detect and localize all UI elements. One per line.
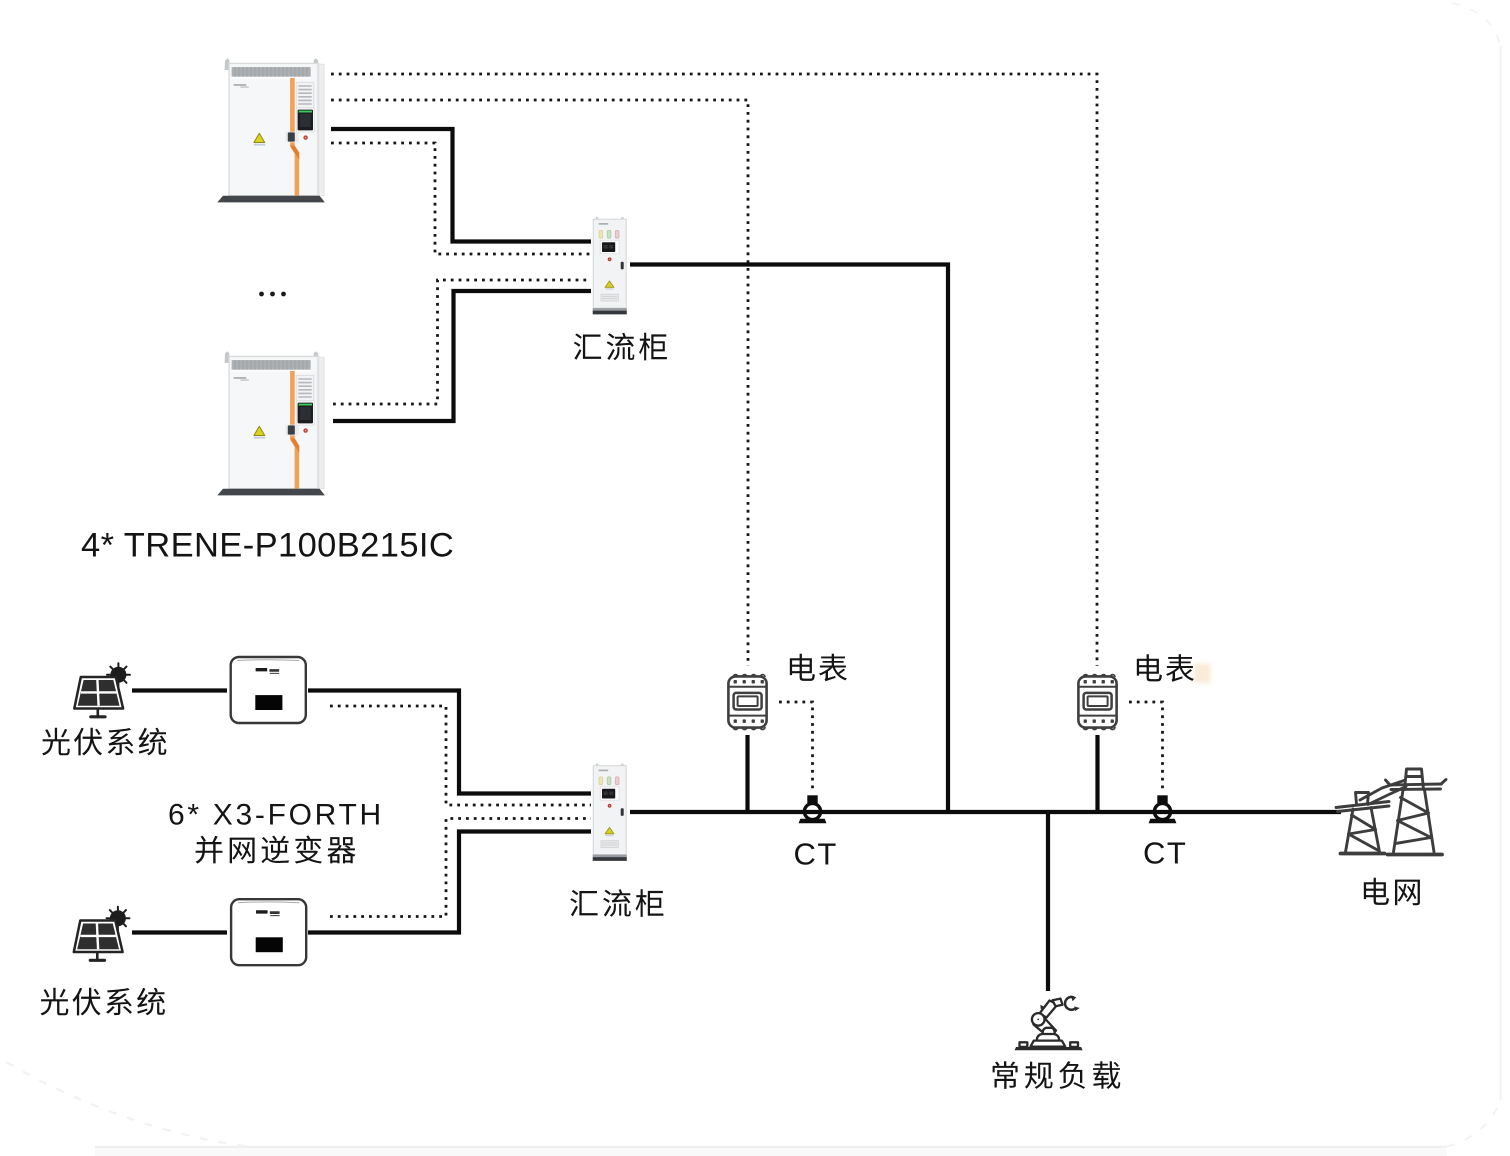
label: 电表 (meter 2) [1137, 654, 1194, 682]
faint card right edge [1500, 46, 1502, 1100]
label: 电表 (meter 1) [790, 654, 847, 682]
wire: load drop from bus (solid) [1046, 814, 1050, 991]
wire: PV1 to inverter1 (solid) [132, 688, 227, 692]
wire: battery1 comm to combiner1 (dotted) [331, 143, 591, 254]
label: 电网 (grid) [1364, 878, 1420, 906]
label: 光伏系统 (PV system 2) [41, 988, 165, 1016]
CT 2 sensor on bus [1149, 795, 1177, 823]
label: 常规负载 (regular load) [993, 1061, 1121, 1089]
combiner cabinet 2 (PV side) [593, 764, 627, 861]
wire: inverter1 comm to combiner2 (dotted) [330, 706, 591, 805]
right tall tower [1405, 769, 1424, 790]
svg-text:4* TRENE-P100B215IC: 4* TRENE-P100B215IC [81, 527, 454, 565]
CT 1 sensor on bus [799, 795, 827, 823]
wire: inverter2 comm to combiner2 (dotted) [330, 819, 591, 917]
svg-text:CT: CT [794, 837, 838, 872]
highlight smudge near meter2 label [1194, 664, 1211, 684]
wire: combiner1 output down to AC bus (solid) [630, 265, 948, 811]
wire: inverter2 output to combiner2 (solid) [308, 832, 591, 933]
inverter 2 (X3-FORTH) [231, 899, 306, 965]
wire: inverter1 output to combiner2 (solid) [308, 691, 591, 794]
PV array 1 with sun [74, 663, 130, 718]
wire: PV2 to inverter2 (solid) [132, 930, 227, 934]
faint corner arc top-right [1452, 3, 1501, 47]
battery cabinet 2 (TRENE-P100B215IC) [217, 351, 325, 495]
label: 并网逆变器 [196, 836, 356, 864]
wire: meter2 comm to CT2 (dotted) [1129, 702, 1163, 791]
conductor wires between towers [1360, 781, 1404, 801]
wire: battery2 comm to combiner1 (dotted) [333, 280, 591, 404]
wire: battery1 comm to meter2 (dotted) [331, 74, 1097, 666]
wire: battery1 comm to meter1 (dotted) [331, 100, 748, 666]
battery cabinet 1 (TRENE-P100B215IC) [217, 58, 325, 202]
wire: battery2 power to combiner1 (solid) [333, 291, 591, 421]
ellipsis dots between battery cabinets [259, 292, 286, 297]
inverter 1 (X3-FORTH) [231, 657, 306, 723]
wire: meter2 drop to bus (solid) [1095, 735, 1099, 810]
wire: meter1 drop to bus (solid) [745, 735, 749, 810]
combiner cabinet 1 (DC side) [593, 217, 627, 314]
svg-text:CT: CT [1143, 836, 1187, 871]
wire: main AC bus to grid (solid) [630, 810, 1341, 814]
svg-text:6* X3-FORTH: 6* X3-FORTH [168, 799, 384, 832]
label: 汇流柜 (combiner 2) [570, 889, 663, 917]
grid transmission towers (电网) [1336, 769, 1446, 855]
label: 汇流柜 (combiner 1) [574, 333, 667, 361]
label: 光伏系统 (PV system 1) [42, 728, 166, 756]
meter 2 (电表) [1078, 675, 1116, 730]
wire: battery1 power to combiner1 (solid) [331, 129, 591, 242]
faint dashed corner arc bottom-left [6, 1062, 244, 1146]
left small tower [1356, 793, 1369, 805]
PV array 2 with sun [74, 907, 130, 962]
robot arm load (常规负载) [1015, 996, 1083, 1050]
faint card bottom edge [95, 1146, 1447, 1148]
faint corner arc bottom-right [1447, 1099, 1501, 1147]
wire: meter1 comm to CT1 (dotted) [779, 702, 813, 791]
meter 1 (电表) [728, 675, 766, 730]
